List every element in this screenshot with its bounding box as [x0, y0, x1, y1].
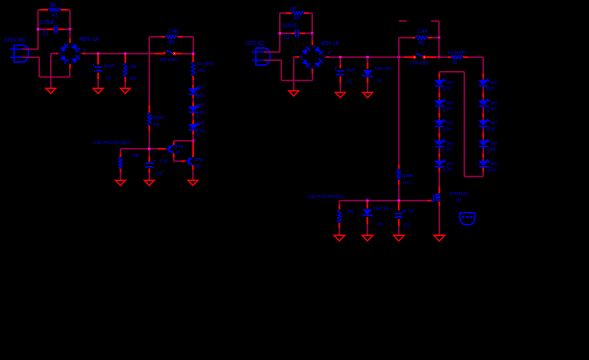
- LED D2 WHT (left column): [435, 79, 446, 86]
- wire: D1 top (right ckt): [367, 58, 369, 63]
- wire: return riser: [463, 72, 465, 177]
- svg-text:6.8 OHMS: 6.8 OHMS: [448, 50, 466, 55]
- svg-text:LED: LED: [486, 86, 490, 92]
- Q1 collector line: [170, 145, 174, 148]
- lead: R6 top (right ckt): [338, 205, 340, 210]
- svg-text:R6: R6: [347, 209, 353, 215]
- lead: right column bottom: [482, 168, 484, 172]
- wire: LED chain (left col): [438, 87, 440, 93]
- wire: LED chain 2 (right col): [482, 117, 484, 120]
- ground (right R6): [334, 235, 345, 241]
- svg-text:4.7uF: 4.7uF: [159, 159, 168, 164]
- lead: C3 bottom: [148, 168, 150, 173]
- AC plug P1 (right): [252, 48, 271, 65]
- lead: LED pin stub (left col): [438, 113, 440, 118]
- wire: down to right LED column: [482, 57, 484, 73]
- capacitor C3 4.7uF (electrolytic): [145, 160, 154, 168]
- wire: top rail right (right ckt): [309, 12, 312, 14]
- wire: right rail to C1 (right ckt): [311, 13, 313, 33]
- junction: rail / R3: [124, 52, 126, 54]
- lead: C1 left: [47, 28, 54, 30]
- junction: switch / R2 / R5: [192, 53, 194, 55]
- ground (zener D2): [362, 235, 373, 241]
- lead: Q2 collector riser: [192, 142, 194, 156]
- wire: left rail up to R1/C1: [37, 10, 39, 50]
- lead: R1 left: [41, 9, 49, 11]
- svg-text:WHT: WHT: [447, 80, 454, 85]
- zener diode D2 1N4744A: [362, 210, 373, 217]
- wire: C1 left: [38, 28, 47, 30]
- wire: rail down to bridge (right ckt): [311, 33, 313, 40]
- LED D4 WHT (left column): [435, 119, 446, 126]
- wire: neutral down (right ckt): [280, 60, 282, 80]
- lead: R2 right (right ckt): [428, 37, 432, 39]
- wire: right rail down to bridge: [69, 29, 71, 38]
- wire: D3 to node: [192, 135, 194, 141]
- svg-text:LED: LED: [442, 146, 446, 152]
- lead: C2 bottom: [97, 73, 99, 80]
- wire: top rail left: [38, 9, 41, 11]
- lead: R4 bottom: [148, 126, 150, 132]
- wire: bypass top left (right ckt): [399, 37, 413, 39]
- lead: R4 bottom (right ckt): [398, 180, 400, 185]
- wire: Q1 emitter to Q2 base: [174, 160, 182, 162]
- lead: MOSFET drain: [438, 187, 440, 194]
- lead: LED anode: [192, 120, 194, 124]
- lead: R3 top: [124, 54, 126, 63]
- wire: to R5 (right ckt): [436, 56, 448, 58]
- wire: LED chain: [192, 98, 194, 102]
- wire: node down to R6 (right ckt): [338, 201, 340, 205]
- wire: R5 to LED column (right ckt): [468, 56, 483, 58]
- svg-text:1N4744A: 1N4744A: [373, 206, 390, 211]
- svg-text:WHT: WHT: [491, 100, 498, 105]
- lead: R5 right (right ckt): [463, 56, 468, 58]
- wire: right rail down to C1: [69, 10, 71, 30]
- svg-text:D9: D9: [491, 126, 496, 131]
- lead: Q2 emitter: [192, 166, 194, 170]
- resistor R1 1M (right ckt): [292, 11, 304, 15]
- lead: D1 zener top: [367, 63, 369, 69]
- wire: LED chain 2 (right col): [482, 97, 484, 100]
- wire: to D1: [192, 80, 194, 84]
- LED D6 WHT (left column): [435, 159, 446, 166]
- wire: Q1 collector to chain node: [174, 140, 193, 142]
- wire: U-turn bottom: [464, 176, 483, 178]
- wire: open switch stub right: [431, 20, 439, 22]
- svg-text:D1: D1: [200, 92, 205, 97]
- svg-text:C2: C2: [347, 79, 353, 85]
- lead: bridge left corner: [54, 53, 58, 55]
- svg-text:R6: R6: [132, 153, 138, 159]
- wire: left column to MOSFET drain: [438, 172, 440, 187]
- svg-text:2.4K: 2.4K: [418, 29, 429, 35]
- wire: DC+ rail (right ckt): [327, 56, 404, 58]
- bridge diode (top-right edge): [71, 43, 80, 52]
- svg-text:C3: C3: [404, 222, 410, 228]
- junction: node / zener D2: [366, 199, 368, 201]
- svg-text:0.39uF: 0.39uF: [283, 23, 297, 29]
- lead: Q2 collector: [192, 155, 194, 157]
- svg-text:D8: D8: [491, 106, 496, 111]
- switch left terminal (right ckt): [413, 56, 415, 58]
- svg-text:LED: LED: [195, 130, 199, 136]
- svg-text:Q1: Q1: [176, 150, 181, 155]
- wire: switch to R5 node: [182, 53, 194, 55]
- junction: rail / zener D1: [366, 56, 368, 58]
- svg-text:CdS PHOTOCELL: CdS PHOTOCELL: [308, 194, 345, 200]
- lead: D2 zener top: [366, 202, 368, 209]
- lead: C2 top (right ckt): [339, 65, 341, 69]
- svg-text:4.7uF: 4.7uF: [404, 209, 415, 214]
- switch SW1 right terminal: [173, 52, 175, 54]
- junction: node / C3: [148, 148, 150, 150]
- svg-text:D3: D3: [200, 128, 205, 133]
- svg-text:LED: LED: [486, 146, 490, 152]
- wire: LED chain (right col): [482, 147, 484, 153]
- ground (MOSFET source): [434, 235, 445, 241]
- lead: C2 top: [97, 54, 99, 64]
- resistor R5 5.6 OHM: [191, 62, 195, 76]
- wire: LED chain 2 (left col): [438, 117, 440, 120]
- lead: C2 bottom (right ckt): [339, 76, 341, 83]
- svg-text:LED: LED: [486, 106, 490, 112]
- bridge diode (left-top edge): [60, 44, 69, 53]
- LED D3 WHT (left column): [435, 99, 446, 106]
- svg-text:NPN: NPN: [194, 157, 203, 162]
- lead: C1 right (right ckt): [299, 32, 305, 34]
- lead: LED cathode: [192, 113, 194, 116]
- lead: switch right stub (right ckt): [426, 56, 436, 58]
- wire: R4 to node (right ckt): [398, 185, 400, 200]
- wire: LED chain: [192, 116, 194, 120]
- wire: C1 left (right ckt): [280, 32, 292, 34]
- junction: node / R4 / C3 (right ckt): [398, 199, 400, 201]
- svg-text:R1: R1: [52, 13, 58, 19]
- wire: bypass left vertical: [148, 37, 150, 54]
- lead: D1 anode: [192, 85, 194, 89]
- lead: Q2 base: [182, 160, 186, 162]
- svg-text:R1: R1: [294, 16, 300, 22]
- svg-text:R5: R5: [199, 68, 205, 73]
- wire: bypass top left: [149, 36, 161, 38]
- wire: DC+ rail (left): [85, 53, 155, 55]
- svg-text:WHT: WHT: [491, 80, 498, 85]
- svg-text:R4: R4: [403, 180, 409, 185]
- svg-text:120V AC: 120V AC: [245, 41, 264, 47]
- switch right terminal (right ckt): [423, 56, 425, 58]
- lead: bridge top corner: [69, 38, 71, 42]
- svg-text:LED: LED: [195, 112, 199, 118]
- wire: LED chain 2 (left col): [438, 158, 440, 161]
- lead: C1 right: [58, 28, 63, 30]
- svg-text:C2: C2: [106, 76, 112, 82]
- lead: R6 bottom (right ckt): [338, 223, 340, 228]
- lead: R4 top (right ckt): [398, 165, 400, 169]
- lead: LED pin stub (right col): [482, 93, 484, 98]
- lead: LED pin stub (left col): [438, 153, 440, 158]
- svg-text:WHT: WHT: [198, 120, 205, 125]
- svg-text:D10: D10: [490, 147, 497, 152]
- AC plug P1 (left): [10, 45, 29, 62]
- junction: rail / C2 (right ckt): [339, 56, 341, 58]
- svg-text:1M: 1M: [130, 64, 137, 70]
- svg-text:R4: R4: [153, 122, 159, 127]
- LED D11 WHT (right column): [479, 159, 490, 166]
- LED D3 WHT: [189, 123, 200, 130]
- resistor R2 2.4K: [165, 35, 177, 39]
- svg-text:560K: 560K: [153, 115, 165, 120]
- LED D1 WHT: [189, 87, 200, 94]
- svg-text:D11: D11: [490, 167, 497, 172]
- bridge diode (left-bottom edge): [302, 59, 311, 68]
- svg-text:+: +: [327, 51, 331, 57]
- wire: top rail left (right ckt): [280, 12, 286, 14]
- wire: LED chain (left col): [438, 147, 440, 153]
- wire: bypass top right (right ckt): [432, 37, 439, 39]
- resistor R2 2.4K (right ckt): [415, 36, 427, 40]
- wire: node down to R6: [120, 149, 122, 154]
- LED D2 WHT: [189, 105, 200, 112]
- wire: LED chain 2 (right col): [482, 138, 484, 141]
- wire: DC- down to ground: [50, 54, 52, 89]
- lead: bridge right corner: [326, 56, 330, 58]
- lead: R2 left (right ckt): [412, 37, 415, 39]
- lead: R4 top: [148, 105, 150, 113]
- svg-text:WHT: WHT: [491, 121, 498, 126]
- wire: DC- left (right ckt): [294, 56, 297, 58]
- svg-text:D2: D2: [378, 221, 383, 227]
- svg-text:D4: D4: [447, 126, 452, 131]
- bridge rectifier 400V 1A (right): [300, 44, 325, 69]
- lead: C3 bottom (right ckt): [398, 219, 400, 226]
- resistor R4 560K: [147, 113, 151, 126]
- svg-text:400V 1A: 400V 1A: [321, 41, 340, 47]
- wire: Q1 emitter corner: [173, 158, 175, 161]
- svg-text:C1: C1: [284, 35, 290, 41]
- svg-text:C1: C1: [43, 31, 49, 37]
- lead: R2 right: [178, 36, 183, 38]
- lead: R1 right: [61, 9, 70, 11]
- wire: neutral down: [38, 57, 40, 77]
- svg-text:400V 1A: 400V 1A: [79, 37, 99, 43]
- ground (zener D1): [363, 92, 373, 97]
- lead: R6 bottom: [120, 169, 122, 173]
- wire: right column to U-turn: [482, 172, 484, 177]
- wire: C2 top (right ckt): [339, 58, 341, 65]
- svg-text:LED: LED: [486, 126, 490, 132]
- lead: MOSFET gate: [427, 200, 432, 202]
- Q2 collector line: [190, 157, 193, 160]
- lead: R6 top: [120, 154, 122, 158]
- lead: Q1 collector: [173, 142, 175, 145]
- junction: left rail / C1 (right ckt): [279, 32, 281, 34]
- lead: R5 bottom: [192, 76, 194, 80]
- svg-text:-: -: [54, 48, 56, 54]
- svg-text:1M: 1M: [49, 3, 56, 9]
- svg-text:10uF: 10uF: [104, 63, 115, 69]
- lead: C3 top: [148, 157, 150, 163]
- svg-text:WHT: WHT: [198, 103, 205, 108]
- lead: R5 top: [192, 55, 194, 63]
- wire: LED chain (right col): [482, 87, 484, 93]
- transistor Q2 NPN: [185, 157, 193, 166]
- wire: C1 right wire (right ckt): [305, 32, 312, 34]
- TO-92 package outline (3 pins): [460, 213, 475, 225]
- lead: D3 cathode: [192, 131, 194, 135]
- svg-text:WHT: WHT: [491, 161, 498, 166]
- wire: bypass right vertical (right ckt): [438, 38, 440, 57]
- svg-text:WHT: WHT: [447, 100, 454, 105]
- LED D8 WHT (right column): [479, 99, 490, 106]
- lead: column top stub (left col): [438, 73, 440, 77]
- svg-text:D7: D7: [491, 86, 496, 91]
- svg-text:Q1: Q1: [456, 197, 461, 202]
- bridge rectifier 400V 1A (left): [59, 42, 82, 65]
- lead: column top stub (right col): [482, 73, 484, 77]
- wire: DC- left: [51, 53, 56, 55]
- lead: LED anode: [192, 103, 194, 107]
- wire: C3 to ground (right ckt): [398, 226, 400, 235]
- junction: rail / C2: [97, 52, 99, 54]
- capacitor C2 10uF (electrolytic): [94, 64, 103, 72]
- wire: neutral across (right ckt): [281, 80, 312, 82]
- wire: plug neutral: [22, 56, 39, 58]
- wire: DC- down to ground (right ckt): [293, 57, 295, 91]
- lead: R1 left (right ckt): [286, 12, 292, 14]
- svg-text:D2: D2: [200, 110, 205, 115]
- resistor R6 (CdS photocell): [119, 157, 123, 169]
- switch SW blade (right ckt): [416, 53, 424, 57]
- wire: left column feed: [438, 72, 440, 74]
- junction: left rail / C1: [37, 28, 39, 30]
- lead: switch left stub: [155, 53, 165, 55]
- ground (right C3): [393, 235, 404, 241]
- svg-text:SOFT/DIM: SOFT/DIM: [160, 57, 178, 62]
- svg-text:0.39uF: 0.39uF: [40, 20, 55, 26]
- bridge diode (bottom-right edge): [314, 59, 323, 68]
- capacitor C1 0.39uF: [54, 25, 57, 33]
- junction: right rail / C1: [69, 28, 71, 30]
- bridge diode (top-right edge): [314, 46, 323, 55]
- svg-text:WHT: WHT: [447, 141, 454, 146]
- wire: to first LED (left col): [438, 78, 440, 81]
- wire: LED chain (right col): [482, 107, 484, 113]
- svg-text:C3: C3: [156, 171, 162, 177]
- wire: stub down to R2 right: [438, 21, 440, 37]
- wire: rail down to R4 (right ckt): [398, 57, 400, 165]
- wire: C2 to ground: [97, 79, 99, 88]
- wire: LED chain (right col): [482, 127, 484, 133]
- svg-text:D2: D2: [447, 86, 452, 91]
- lead: D1 zener bottom: [367, 77, 369, 83]
- svg-text:8uF: 8uF: [347, 67, 356, 73]
- svg-text:LED: LED: [442, 126, 446, 132]
- svg-text:WHT: WHT: [447, 121, 454, 126]
- svg-text:D1: D1: [377, 78, 382, 84]
- lead: C3 top (right ckt): [398, 202, 400, 211]
- lead: switch left stub (right ckt): [404, 56, 413, 58]
- junction: LED chain / Q1 collector: [192, 140, 194, 142]
- zener diode D1 180V 5W: [362, 70, 373, 77]
- lead: LED pin stub (right col): [482, 133, 484, 138]
- junction: switch / bypass right (right ckt): [438, 56, 440, 58]
- resistor R5 6.8 OHMS (right): [451, 55, 463, 59]
- lead: R3 bottom: [124, 77, 126, 82]
- ground (C3): [144, 180, 154, 185]
- wire: Q2 emitter to ground: [192, 170, 194, 181]
- wire: R6 to ground (right ckt): [338, 228, 340, 235]
- svg-text:120V AC: 120V AC: [4, 37, 27, 43]
- junction: right rail / C1 (right ckt): [311, 32, 313, 34]
- wire: bypass right vertical: [192, 37, 194, 54]
- wire: D2 to ground: [366, 224, 368, 235]
- lead: switch right stub: [176, 53, 182, 55]
- lead: left column bottom: [438, 168, 440, 172]
- wire: C2 to ground (right ckt): [339, 83, 341, 92]
- wire: R6 to ground: [120, 173, 122, 181]
- svg-text:1M: 1M: [289, 7, 296, 13]
- lead: Q1 base: [158, 148, 166, 150]
- capacitor C3 4.7uF (right ckt): [395, 210, 404, 218]
- svg-text:SOFT/DIM: SOFT/DIM: [410, 61, 428, 66]
- lead: C1 left (right ckt): [292, 32, 295, 34]
- bridge diode (left-top edge): [302, 46, 311, 55]
- ground (right C2): [335, 92, 345, 97]
- wire: open switch stub left: [399, 20, 407, 22]
- wire: C1 right: [64, 28, 71, 30]
- lead: R1 right (right ckt): [304, 12, 309, 14]
- ground (R3): [120, 88, 130, 93]
- MOSFET Q1 ZVN0120 (N-channel): [432, 194, 440, 202]
- wire: photocell node horizontal (right ckt): [339, 200, 427, 202]
- wire: source to ground: [438, 206, 440, 235]
- lead: bridge top corner: [311, 41, 313, 45]
- svg-text:LED: LED: [442, 166, 446, 172]
- lead: R2 left: [162, 36, 166, 38]
- wire: node down to C3: [148, 150, 150, 157]
- svg-text:WHT: WHT: [491, 141, 498, 146]
- wire: C3 to ground: [148, 173, 150, 180]
- wire: bypass left vertical (right ckt): [398, 38, 400, 57]
- lead: bridge bottom corner: [69, 64, 71, 68]
- svg-text:R2: R2: [169, 40, 175, 46]
- svg-text:D6: D6: [447, 167, 452, 172]
- wire: rail down to R4: [148, 54, 150, 105]
- svg-text:NPN: NPN: [174, 144, 183, 149]
- lead: LED pin stub (left col): [438, 133, 440, 138]
- bridge diode (left-bottom edge): [60, 55, 69, 64]
- svg-text:LED: LED: [442, 106, 446, 112]
- svg-text:LED: LED: [486, 166, 490, 172]
- lead: bridge bottom corner: [311, 69, 313, 73]
- lead: LED pin stub (right col): [482, 113, 484, 118]
- wire: LED chain 2 (right col): [482, 158, 484, 161]
- wire: left rail up to R1/C1 (right ckt): [279, 13, 281, 53]
- wire: neutral across: [39, 76, 70, 78]
- ground (left bridge DC-): [46, 88, 56, 93]
- svg-text:LED: LED: [195, 94, 199, 100]
- svg-text:R3: R3: [130, 76, 136, 82]
- wire: neutral up to bridge AC2 (right ckt): [312, 72, 314, 81]
- svg-text:Q2: Q2: [196, 163, 201, 168]
- bridge diode (bottom-right edge): [71, 55, 80, 64]
- lead: D2 zener bottom: [366, 217, 368, 224]
- svg-text:ZVN0120: ZVN0120: [449, 191, 467, 196]
- resistor R4 330K (right ckt): [397, 169, 401, 180]
- svg-text:LED: LED: [442, 86, 446, 92]
- wire: LED chain 2 (left col): [438, 138, 440, 141]
